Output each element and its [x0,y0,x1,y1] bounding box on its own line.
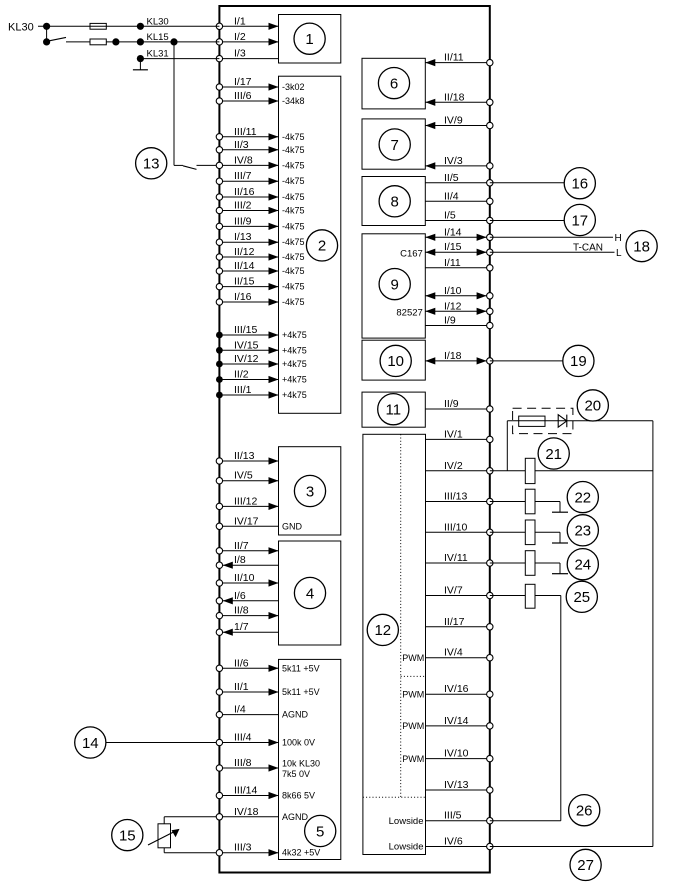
svg-text:-3k02: -3k02 [282,82,305,92]
svg-text:I/9: I/9 [444,315,456,327]
svg-text:II/17: II/17 [444,616,465,628]
svg-text:I/2: I/2 [234,31,246,43]
svg-text:IV/14: IV/14 [444,715,469,727]
svg-text:+4k75: +4k75 [282,390,307,400]
svg-text:III/9: III/9 [234,215,252,227]
svg-text:23: 23 [574,523,591,540]
svg-text:III/4: III/4 [234,732,252,744]
svg-text:IV/4: IV/4 [444,647,463,659]
svg-text:I/15: I/15 [444,241,462,253]
svg-text:-4k75: -4k75 [282,192,305,202]
svg-text:II/5: II/5 [444,172,459,184]
svg-text:I/11: I/11 [444,257,461,269]
svg-text:II/1: II/1 [234,681,249,693]
svg-text:IV/7: IV/7 [444,585,463,597]
svg-text:-4k75: -4k75 [282,132,305,142]
svg-text:12: 12 [374,622,391,639]
svg-text:II/12: II/12 [234,246,255,258]
svg-text:+4k75: +4k75 [282,359,307,369]
svg-text:I/17: I/17 [234,76,252,88]
svg-text:III/13: III/13 [444,491,468,503]
svg-text:III/2: III/2 [234,200,252,212]
svg-text:IV/8: IV/8 [234,154,253,166]
svg-text:PWM: PWM [402,653,424,663]
svg-text:II/6: II/6 [234,657,249,669]
svg-text:20: 20 [584,398,601,415]
svg-text:IV/13: IV/13 [444,779,469,791]
svg-text:II/18: II/18 [444,91,465,103]
svg-text:9: 9 [391,276,399,293]
svg-text:+4k75: +4k75 [282,375,307,385]
svg-text:17: 17 [571,212,588,229]
svg-text:7: 7 [391,137,399,154]
svg-text:+4k75: +4k75 [282,330,307,340]
svg-text:-4k75: -4k75 [282,160,305,170]
svg-text:IV/18: IV/18 [234,806,259,818]
svg-text:III/1: III/1 [234,384,252,396]
svg-text:IV/16: IV/16 [444,683,469,695]
svg-text:8k66 5V: 8k66 5V [282,791,315,801]
svg-text:1: 1 [305,31,313,48]
svg-text:1/7: 1/7 [234,621,249,633]
svg-text:-4k75: -4k75 [282,145,305,155]
svg-text:III/6: III/6 [234,90,252,102]
svg-text:KL30: KL30 [8,21,34,33]
svg-text:-4k75: -4k75 [282,176,305,186]
svg-text:III/5: III/5 [444,810,462,822]
svg-text:-4k75: -4k75 [282,252,305,262]
svg-text:IV/15: IV/15 [234,339,259,351]
svg-text:IV/1: IV/1 [444,428,463,440]
svg-text:I/18: I/18 [444,350,462,362]
svg-text:PWM: PWM [402,754,424,764]
svg-text:III/15: III/15 [234,324,258,336]
svg-text:-4k75: -4k75 [282,206,305,216]
svg-text:6: 6 [390,75,398,92]
svg-text:IV/3: IV/3 [444,155,463,167]
svg-text:KL15: KL15 [147,32,169,43]
svg-text:IV/2: IV/2 [444,460,463,472]
svg-text:KL30: KL30 [147,16,169,27]
svg-text:10k KL30: 10k KL30 [282,759,320,769]
svg-text:14: 14 [82,735,99,752]
svg-text:L: L [616,248,622,259]
svg-text:2: 2 [318,238,326,255]
svg-text:3: 3 [306,483,314,500]
svg-text:13: 13 [143,156,160,173]
svg-text:Lowside: Lowside [389,816,424,827]
svg-text:II/14: II/14 [234,260,255,272]
svg-text:22: 22 [574,489,591,506]
svg-text:PWM: PWM [402,689,424,699]
svg-text:II/7: II/7 [234,540,249,552]
svg-text:II/2: II/2 [234,369,249,381]
svg-text:IV/17: IV/17 [234,515,259,527]
svg-text:III/14: III/14 [234,785,258,797]
svg-text:21: 21 [545,446,562,463]
svg-text:-34k8: -34k8 [282,96,305,106]
svg-text:I/4: I/4 [234,704,246,716]
svg-text:5k11 +5V: 5k11 +5V [282,663,320,673]
svg-text:III/3: III/3 [234,842,252,854]
svg-text:27: 27 [577,857,594,874]
svg-text:I/8: I/8 [234,554,246,566]
svg-text:-4k75: -4k75 [282,237,305,247]
svg-text:Lowside: Lowside [389,842,424,853]
svg-text:I/12: I/12 [444,300,462,312]
svg-text:II/10: II/10 [234,572,255,584]
svg-text:IV/6: IV/6 [444,836,463,848]
svg-text:II/4: II/4 [444,190,459,202]
svg-text:IV/12: IV/12 [234,353,259,365]
svg-text:I/16: I/16 [234,291,252,303]
svg-text:C167: C167 [400,249,423,260]
svg-text:I/6: I/6 [234,590,246,602]
svg-text:I/14: I/14 [444,226,462,238]
svg-text:II/3: II/3 [234,139,249,151]
svg-text:AGND: AGND [282,710,309,720]
svg-text:IV/11: IV/11 [444,552,468,564]
svg-text:III/12: III/12 [234,495,258,507]
svg-text:5: 5 [316,823,324,840]
svg-text:18: 18 [633,238,650,255]
svg-text:II/15: II/15 [234,276,255,288]
svg-text:I/13: I/13 [234,231,252,243]
svg-text:19: 19 [570,353,587,370]
svg-text:24: 24 [574,557,591,574]
svg-text:7k5 0V: 7k5 0V [282,769,310,779]
svg-text:15: 15 [119,827,136,844]
svg-text:H: H [615,233,622,244]
svg-text:82527: 82527 [396,308,422,319]
svg-text:I/5: I/5 [444,210,456,222]
svg-text:III/8: III/8 [234,757,252,769]
svg-text:I/10: I/10 [444,285,462,297]
svg-text:5k11 +5V: 5k11 +5V [282,687,320,697]
svg-text:III/7: III/7 [234,170,252,182]
svg-text:AGND: AGND [282,812,309,822]
svg-text:-4k75: -4k75 [282,221,305,231]
svg-text:I/1: I/1 [234,15,246,27]
svg-text:KL31: KL31 [147,49,169,60]
svg-text:IV/10: IV/10 [444,748,469,760]
svg-text:-4k75: -4k75 [282,282,305,292]
svg-text:-4k75: -4k75 [282,297,305,307]
svg-text:8: 8 [391,194,399,211]
svg-text:26: 26 [576,803,593,820]
svg-text:11: 11 [386,402,402,419]
svg-text:25: 25 [573,589,590,606]
svg-text:II/13: II/13 [234,450,255,462]
svg-text:IV/9: IV/9 [444,115,463,127]
svg-text:II/16: II/16 [234,186,255,198]
svg-text:16: 16 [571,176,588,193]
svg-text:II/11: II/11 [444,52,464,64]
svg-text:+4k75: +4k75 [282,345,307,355]
svg-text:PWM: PWM [402,721,424,731]
svg-text:T-CAN: T-CAN [573,242,603,253]
svg-text:II/8: II/8 [234,605,249,617]
svg-text:II/9: II/9 [444,398,459,410]
svg-text:4: 4 [306,585,314,602]
svg-text:GND: GND [282,521,303,531]
svg-text:I/3: I/3 [234,48,246,60]
svg-text:III/11: III/11 [234,126,257,138]
svg-text:10: 10 [387,353,404,370]
svg-text:4k32 +5V: 4k32 +5V [282,848,320,858]
svg-text:100k 0V: 100k 0V [282,738,315,748]
svg-text:-4k75: -4k75 [282,266,305,276]
svg-text:IV/5: IV/5 [234,470,253,482]
svg-text:III/10: III/10 [444,521,468,533]
